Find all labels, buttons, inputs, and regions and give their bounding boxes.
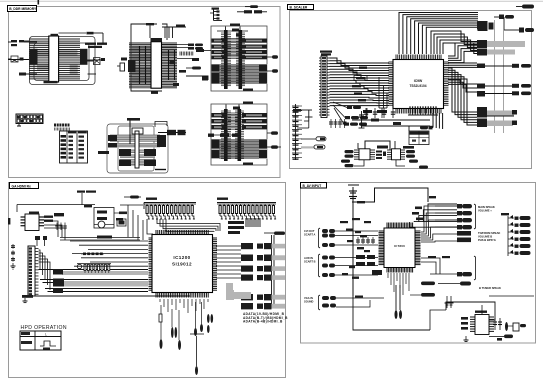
- vertical caps under IC7800: [395, 285, 403, 319]
- svg-text:SCART A: SCART A: [304, 233, 316, 237]
- CNB bottom label: [243, 163, 253, 165]
- svg-text:TO/FROM SPEAK: TO/FROM SPEAK: [478, 231, 500, 235]
- block title GA HDMI Rx: [10, 183, 39, 189]
- IC201 left pin field: [29, 39, 49, 79]
- connector row3 dark blobs with bus: [241, 266, 285, 272]
- capacitor pair C1256: [207, 314, 213, 333]
- vertical bus from connector pins: [39, 250, 51, 290]
- capacitors below CN9: [329, 119, 347, 128]
- resistor array RA202: [180, 52, 193, 56]
- vertical wires oscillator area to IC: [120, 205, 143, 240]
- series caps on AV wires: [356, 237, 375, 244]
- level shifter IC body: [135, 131, 139, 168]
- diagonal wires to capsules: [333, 102, 347, 124]
- svg-text:IC1200: IC1200: [173, 255, 190, 260]
- tick comb under scaler bottom right: [408, 106, 438, 115]
- svg-text:AUD IN: AUD IN: [304, 256, 313, 260]
- IC202 right pin field: [162, 43, 177, 88]
- scattered net bars AV wires: [342, 229, 370, 279]
- IC202 left pin field: [129, 43, 151, 88]
- CNB left row bands: [212, 113, 225, 129]
- tiny bars between U10 U11: [376, 151, 386, 160]
- level shifter mid-right blobs: [144, 149, 156, 166]
- wires lower right: [421, 256, 450, 274]
- CNB lower gray section: [212, 139, 268, 159]
- ground symbol under cap column: [11, 263, 16, 269]
- left frame edge tick: [8, 218, 10, 225]
- connector blobs top right: [478, 21, 494, 31]
- CNA right row bands: [242, 39, 267, 60]
- vertical bus lines over IC202 right pins: [169, 50, 175, 80]
- CNB spine IC2 dark: [235, 109, 244, 161]
- speaker output capsules group1: [435, 204, 472, 229]
- wire loop to amp: [446, 302, 495, 320]
- jumper pair right of IC202 top: [188, 44, 203, 50]
- IC202 left bus blob: [128, 60, 136, 72]
- gray bus band IC201 lower right small: [70, 65, 78, 75]
- gray bus band IC201 upper right: [59, 50, 78, 57]
- AV QFP bottom pin comb: [387, 267, 413, 273]
- VGA connector capsules: [322, 296, 336, 308]
- wire fan CN9 to scaler: [330, 58, 390, 106]
- CNB spine IC1 dark: [221, 109, 231, 161]
- wire enclosure level shifter outer: [107, 124, 168, 173]
- tee bar top of vertical: [348, 184, 359, 186]
- IC202 bottom label: [151, 91, 158, 94]
- capsule components below CN9 row3: [344, 123, 367, 126]
- wire DDR1 right stubs: [88, 60, 104, 74]
- capacitor column left of CN1200: [11, 244, 15, 262]
- connector row1 dark blobs with bus: [241, 243, 285, 249]
- wire bundle IC202 top right: [162, 27, 186, 38]
- op IC9W body scaler: [393, 60, 444, 109]
- capacitor pair tall C1251: [171, 309, 177, 338]
- CNB middle hatch rows: [228, 113, 239, 129]
- IC1200 right pin comb: [212, 238, 217, 290]
- gray bus band IC202 right: [162, 51, 177, 55]
- IC201 bottom label: [44, 81, 58, 83]
- wire amp top: [481, 305, 483, 314]
- CNA spine IC1 dark: [221, 30, 231, 89]
- right connector blob row7: [477, 107, 517, 118]
- wire bus comb to IC nested: [147, 219, 220, 234]
- MAIN SPEAK text: [478, 205, 495, 213]
- capacitor C1253: [178, 310, 181, 350]
- ground at amp: [464, 336, 469, 342]
- tuner speak capsule row: [430, 272, 472, 276]
- connector row5 dark blobs with bus: [241, 294, 285, 300]
- resistor R202 top right of IC201: [87, 32, 104, 43]
- level shifter top net label: [127, 118, 140, 121]
- vertical bus lines over IC202 left pins: [140, 46, 146, 84]
- CNB exit wires: [267, 131, 281, 148]
- IC201 right bus blob: [80, 49, 88, 65]
- wire bottom net: [353, 296, 446, 330]
- fuse jumper beside ladder 1: [301, 137, 326, 141]
- options table: [60, 131, 88, 163]
- capacitor C1252: [160, 305, 163, 349]
- net blob rows on TMDS: [53, 269, 64, 293]
- block title B_AV INPUT: [301, 183, 327, 189]
- wire top loop rectangle: [352, 188, 428, 202]
- level shifter mid-left blobs: [119, 149, 131, 166]
- resistor R210 pair: [237, 10, 267, 13]
- ground symbol under connector: [23, 298, 28, 303]
- wire level shifter top: [129, 121, 131, 145]
- resistors left of IC7900: [461, 317, 468, 330]
- small parts row above resistors: [81, 253, 104, 256]
- wire enclosure around IC201 inner: [34, 43, 89, 81]
- capacitor C1255: [200, 302, 203, 332]
- CNB top wiring: [226, 105, 240, 110]
- block frame B_DDR MEMORY: [9, 7, 281, 178]
- net label IC202 top: [176, 25, 185, 27]
- svg-text:B TUNER SPEAK: B TUNER SPEAK: [479, 286, 501, 290]
- IC202 body DDR SDRAM: [151, 42, 162, 88]
- IC1200 bottom pin comb: [156, 293, 208, 298]
- crystal X202 right: [88, 58, 106, 65]
- IC7800 body AV decoder: [384, 228, 415, 268]
- wire group scaler upper right D: [448, 43, 477, 63]
- capacitor C1254: [194, 302, 197, 336]
- right connector blob row1: [477, 22, 487, 30]
- block frame B_SCALER: [290, 11, 532, 169]
- framed net label box: [354, 76, 367, 81]
- level shifter right attachment blobs: [155, 122, 186, 136]
- decoupling capacitor ladder: [292, 104, 302, 160]
- vertical cap cluster left: [359, 111, 365, 128]
- svg-text:ADATA(B-4B)/HDMI_B: ADATA(B-4B)/HDMI_B: [243, 320, 283, 324]
- wire level shifter bottom right: [155, 169, 166, 171]
- right connector tick row5: [477, 84, 485, 89]
- CNB right row bands: [242, 113, 267, 129]
- svg-text:IC9W: IC9W: [414, 79, 423, 83]
- IC201 left bus blob: [30, 49, 38, 65]
- capsule components below CN9 row2: [345, 116, 368, 119]
- PB JTAG table: [409, 131, 429, 145]
- connector row4 dark blobs with bus: [241, 275, 285, 281]
- svg-text:SOUND: SOUND: [304, 300, 313, 304]
- capsule below amp: [489, 335, 513, 341]
- capsule end of bottom bundle: [420, 126, 433, 130]
- ADATA net name text lines: [243, 312, 288, 324]
- right connector blob row8: [477, 119, 517, 128]
- capacitors under EEPROM nets: [55, 223, 67, 231]
- brace glyph vga: [319, 295, 321, 310]
- wire group scaler right A: [448, 63, 477, 67]
- svg-text:VOLUME +: VOLUME +: [478, 209, 492, 213]
- ladder top bar and tee: [293, 109, 313, 128]
- wire enclosure around IC201 outer: [30, 37, 96, 85]
- jumper R91 right edge: [485, 64, 531, 68]
- jumper R93 right edge: [485, 91, 531, 95]
- block title B_SCALER: [288, 5, 314, 10]
- capsule resistors right of U11: [406, 150, 428, 169]
- wire row to edge: [487, 115, 514, 117]
- jumper R92 right edge: [485, 84, 531, 88]
- TO FROM text: [478, 231, 500, 242]
- svg-text:B_DDR MEMORY: B_DDR MEMORY: [9, 7, 37, 11]
- wires IC202 to right components: [162, 45, 196, 59]
- net label bars on fan wires: [352, 67, 367, 102]
- capsule jumper top right b: [504, 17, 534, 33]
- IC202 top cap: [151, 38, 163, 42]
- scaler QFP left pin comb: [389, 62, 394, 105]
- gray bus bands IC202 left: [132, 46, 151, 83]
- wire IC201 top to right: [59, 32, 87, 34]
- CNA exit wires: [196, 49, 278, 73]
- wire loop between U10 U11: [358, 141, 395, 150]
- wire crossbars under scaler: [352, 119, 430, 132]
- CNA middle hatch rows: [227, 39, 239, 59]
- CNB top label: [243, 102, 253, 104]
- wire enclosure loop IC202: [131, 24, 167, 91]
- IC201 right pin field: [59, 39, 81, 79]
- wire bundle scaler top-right corner: [431, 31, 477, 54]
- IC1200 body HDMI receiver: [152, 235, 213, 293]
- wire IC202 label to chip: [149, 26, 151, 39]
- page top tick mark: [38, 0, 40, 5]
- CNA bottom label: [243, 89, 253, 91]
- audio amp IC7900 body: [470, 311, 494, 335]
- block title B_DDR MEMORY: [8, 6, 37, 12]
- net bars on staircase: [412, 196, 436, 220]
- svg-text:TSS2L9104: TSS2L9104: [409, 84, 426, 88]
- net label IC202 mid right: [173, 70, 186, 86]
- resistor R211 capsule: [245, 5, 258, 8]
- wire drops under IC7800: [388, 273, 409, 295]
- wire TMDS pair rows: [35, 270, 190, 297]
- scaler QFP bottom pin comb: [396, 109, 441, 114]
- wire staircase outputs down to QFP top: [410, 204, 457, 227]
- wire long right of IC202: [186, 76, 208, 81]
- resistor R201 pair left of IC201: [8, 40, 29, 46]
- gray band top right under IC: [226, 290, 234, 300]
- CNA top wiring: [217, 27, 248, 37]
- wire DDR1 left stubs: [8, 42, 37, 76]
- svg-text:IC7800: IC7800: [394, 244, 405, 248]
- wire group scaler right C nested down: [448, 68, 477, 125]
- wires AV jacks to IC: [335, 231, 378, 275]
- IC202 reference label: [146, 23, 154, 25]
- svg-text:Si19012: Si19012: [172, 262, 192, 267]
- brace glyph lower: [319, 254, 321, 277]
- block frame B_AV INPUT: [301, 183, 536, 344]
- svg-text:VGA IN: VGA IN: [304, 296, 313, 300]
- capsule right top: [264, 232, 285, 235]
- ground symbols mid: [445, 296, 454, 308]
- net labels mid: [340, 218, 371, 223]
- net label bars right of EEPROM: [44, 213, 64, 222]
- EEPROM IC1201 8pin: [21, 212, 45, 231]
- gray L band lower left of rows: [226, 283, 251, 300]
- connector row6 dark blobs with bus: [241, 303, 285, 309]
- long wire bottom cap: [190, 334, 204, 375]
- capsule resistors left of U10: [341, 150, 354, 167]
- AV QFP top pin comb: [387, 223, 413, 229]
- wire group scaler right B: [448, 80, 477, 92]
- scaler QFP top pin comb: [396, 55, 441, 60]
- capsule jumper top right a: [494, 15, 514, 20]
- component cluster left of IC lower: [356, 255, 382, 275]
- connector row2 dark blobs with bus: [241, 255, 285, 262]
- brace glyph upper: [319, 228, 321, 248]
- HDMI connector CN1200: [22, 246, 39, 298]
- connector CN9 vertical strip: [319, 56, 330, 118]
- wire drops under IC1200: [160, 299, 208, 313]
- connector group frame CNA: [211, 26, 267, 91]
- small IC U10 8pin: [354, 149, 375, 160]
- gray bus band IC201 upper left: [37, 50, 49, 57]
- jumper pair right top: [124, 196, 141, 199]
- wire bundle scaler top nested: [399, 13, 478, 55]
- IC201 top label: [51, 34, 59, 37]
- svg-text:VOLUME B: VOLUME B: [478, 235, 492, 239]
- resistor R1251 vertical: [159, 314, 162, 322]
- junction components under fan: [363, 108, 387, 118]
- net bars far right of IC202: [186, 58, 201, 70]
- IC1200 top pin comb: [156, 230, 208, 235]
- AV QFP left pin comb: [379, 231, 385, 265]
- AV QFP right pin comb: [415, 231, 421, 265]
- wire level shifter left tail: [98, 151, 109, 154]
- right connector tick row4: [477, 64, 485, 69]
- AV input labels text left: [304, 229, 316, 264]
- bracket group1: [474, 204, 476, 229]
- level shifter config box: [132, 128, 143, 134]
- oscillator X1200 circuit: [94, 208, 114, 229]
- small IC U11 8pin: [387, 146, 414, 160]
- svg-text:PHS B BPR %: PHS B BPR %: [478, 238, 496, 242]
- gray bus bands from connector: [62, 271, 148, 287]
- net bars right of oscillator: [114, 212, 127, 221]
- right connector blob row3 with bus: [477, 49, 515, 56]
- left edge net labels IC202: [117, 58, 127, 72]
- components above connector: [35, 236, 47, 246]
- AV jack connector row group upper: [322, 229, 335, 277]
- vertical pair wires right: [272, 235, 275, 305]
- wire vertical main left: [352, 187, 354, 296]
- resistor array row mid: [77, 264, 111, 274]
- wire enclosure level shifter inner: [118, 126, 154, 171]
- RN1 label: [146, 198, 157, 200]
- small box right of oscillator: [117, 219, 126, 226]
- capsule CN top right corner: [516, 5, 534, 9]
- net label above right of IC201: [85, 43, 107, 49]
- termination resistor comb RN1: [144, 203, 196, 220]
- net label top: [357, 201, 365, 203]
- wire bus under oscillator: [60, 236, 140, 241]
- VGA labels text: [304, 296, 313, 304]
- jumper block J210 3-pin: [210, 8, 222, 21]
- svg-text:L: L: [45, 333, 47, 337]
- right connector blob row2 with bus: [477, 40, 525, 49]
- wire right area: [489, 295, 534, 297]
- wire top horizontal bus: [17, 205, 95, 213]
- svg-text:CVI OUT: CVI OUT: [304, 229, 315, 233]
- HPD OPERATION table: [20, 325, 67, 350]
- svg-text:HPD OPERATION: HPD OPERATION: [21, 325, 67, 331]
- CNA spine IC2 dark: [236, 30, 245, 89]
- CNA lower gray section: [212, 64, 268, 84]
- CNA left row bands: [212, 39, 225, 60]
- level shifter right blob: [157, 135, 166, 147]
- level shifter left blobs: [108, 135, 117, 148]
- tuner speak capsule row b: [438, 282, 471, 286]
- wires below small ICs: [341, 160, 405, 166]
- gray vertical long wires: [495, 20, 504, 133]
- IC1200 left pin comb: [149, 238, 154, 290]
- svg-text:B_SCALER: B_SCALER: [290, 6, 308, 10]
- wires EEPROM to bus: [44, 221, 65, 240]
- capsules right of drops: [410, 282, 435, 297]
- svg-text:MAIN SPEAK: MAIN SPEAK: [478, 205, 495, 209]
- CNA top label: [230, 24, 240, 26]
- pin header CN201 2x8: [16, 114, 43, 126]
- component right edge bottom: [506, 323, 526, 331]
- caps right of IC7900: [493, 318, 508, 331]
- top capacitor pair with net label: [77, 191, 96, 208]
- cluster small caps under scaler: [364, 108, 395, 118]
- IC202 right pin blob: [170, 60, 175, 65]
- CN9 top label: [320, 51, 332, 56]
- wires into IC1200 left: [70, 241, 148, 266]
- resistor cluster right top: [228, 218, 260, 234]
- RN2 label: [217, 198, 228, 200]
- dark connector rows group2: [457, 231, 471, 242]
- page top separator line: [0, 0, 543, 2]
- bracket tuner: [474, 256, 476, 280]
- transistor ladder right: [501, 213, 531, 256]
- scaler QFP right pin comb: [444, 62, 449, 105]
- right connector tick row6: [477, 91, 485, 97]
- gray bus band IC201 lower left: [37, 65, 49, 71]
- capacitors on vertical wire: [349, 191, 357, 199]
- svg-text:B_AV INPUT: B_AV INPUT: [303, 184, 322, 188]
- svg-text:GA HDMI Rx: GA HDMI Rx: [12, 185, 31, 189]
- svg-text:SCART B: SCART B: [304, 260, 316, 264]
- termination resistor comb RN2: [217, 203, 276, 220]
- CNB mid single row: [208, 134, 241, 137]
- wire bundle scaler bottom pins down: [432, 113, 443, 129]
- wire staircase QFP to outputs: [421, 206, 457, 242]
- fuse jumper beside ladder 2: [301, 145, 325, 149]
- wires joining right rows: [216, 246, 241, 278]
- block frame GA HDMI Rx: [9, 183, 286, 378]
- capsule components below CN9 row1: [347, 106, 361, 109]
- IC201 body DDR SDRAM: [49, 36, 59, 82]
- gray bands level shifter: [110, 135, 160, 166]
- crystal X201 left: [8, 56, 24, 62]
- wires VGA to center: [336, 296, 384, 308]
- resistor pack RP201: [54, 124, 70, 131]
- connector group frame CNB: [211, 104, 267, 165]
- vertical drops from fan: [379, 77, 387, 108]
